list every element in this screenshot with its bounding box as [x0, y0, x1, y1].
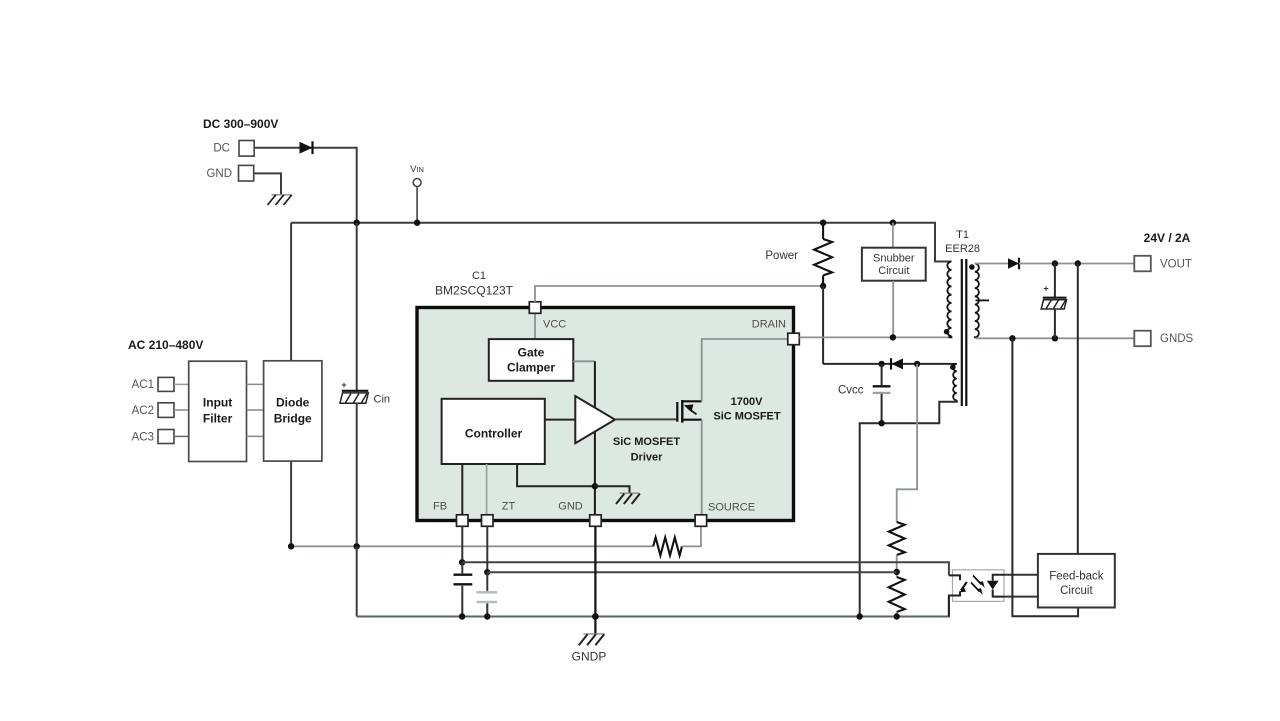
block Controller	[442, 399, 545, 464]
wire AC3 stub	[174, 435, 189, 437]
pin SOURCE	[695, 502, 755, 527]
junction dot divider/ZT	[894, 569, 900, 575]
resistor Rsense	[653, 537, 682, 555]
block Snubber Circuit	[862, 223, 926, 338]
svg-text:SOURCE: SOURCE	[708, 502, 755, 514]
svg-text:C1: C1	[472, 270, 486, 282]
svg-text:VCC: VCC	[543, 319, 566, 331]
junction dot aux return / Cvcc	[878, 420, 884, 426]
junction dot GND internal	[592, 483, 598, 489]
wire filter-bridge stubs	[247, 384, 264, 436]
pin GND	[558, 501, 601, 527]
diode D_aux (pointing left)	[891, 358, 903, 369]
svg-text:DRAIN: DRAIN	[752, 319, 786, 331]
wire controller ZT stub	[486, 464, 488, 515]
node VIN	[410, 164, 424, 187]
terminal GNDS	[1134, 331, 1193, 347]
wire top rail	[291, 223, 948, 262]
wire GND pin to GNDP	[594, 526, 596, 633]
secondary top rail	[975, 263, 1008, 265]
wire VOUT sense down	[1077, 264, 1079, 554]
svg-text:AC2: AC2	[132, 405, 154, 417]
wire FB rail to opto	[462, 562, 949, 575]
svg-text:24V / 2A: 24V / 2A	[1144, 231, 1191, 245]
wire AC2 stub	[174, 409, 189, 411]
terminal AC2	[132, 403, 174, 418]
junction dot FB	[459, 559, 465, 565]
wire controller FB stub	[461, 464, 463, 515]
junction dot bottom rail / divider	[894, 613, 900, 619]
primary winding	[948, 261, 951, 263]
pin ZT	[482, 501, 516, 527]
resistor divider lower	[889, 577, 905, 612]
junction dots on top rail	[354, 220, 360, 226]
block Feed-back Circuit	[1038, 554, 1115, 608]
junction dot bridge/sense	[288, 543, 294, 549]
svg-text:GND: GND	[206, 168, 232, 180]
terminal AC1	[132, 377, 174, 391]
wire opto to feedback (top)	[1004, 574, 1038, 576]
wire sense rail	[291, 545, 653, 547]
ground chassis (DC input)	[268, 195, 292, 205]
wire ZT rail to divider	[487, 571, 896, 573]
svg-text:SiC MOSFET: SiC MOSFET	[613, 436, 681, 448]
optocoupler U2	[949, 570, 1004, 617]
junction dot bottom rail / aux return	[857, 613, 863, 619]
junction dot FB cap bottom	[459, 613, 465, 619]
svg-text:Cvcc: Cvcc	[838, 385, 864, 397]
svg-text:Cin: Cin	[374, 394, 391, 406]
capacitor C_ZT (gray)	[476, 572, 497, 616]
diode D_in	[300, 141, 313, 154]
junction dot aux sense	[914, 361, 920, 367]
wire driver vertical rail	[594, 361, 596, 515]
block Gate Clamper	[489, 339, 574, 381]
svg-text:BM2SCQ123T: BM2SCQ123T	[435, 283, 514, 297]
aux winding	[953, 364, 957, 400]
svg-text:Power: Power	[765, 250, 798, 262]
svg-text:SiC MOSFET: SiC MOSFET	[713, 411, 781, 423]
capacitor Cin	[340, 223, 390, 547]
resistor divider upper	[889, 522, 905, 555]
secondary winding	[975, 264, 979, 339]
capacitor C_FB	[454, 562, 473, 616]
svg-text:Input: Input	[203, 396, 232, 410]
core	[961, 259, 963, 406]
wire power node down to aux rail	[822, 286, 824, 364]
pin DRAIN	[752, 319, 800, 345]
junction dot Cin/sense	[354, 543, 360, 549]
wire DRAIN to primary	[799, 336, 948, 338]
secondary tap stub	[976, 299, 990, 301]
terminal DC	[213, 141, 254, 157]
svg-text:Gate: Gate	[518, 346, 545, 360]
svg-text:Diode: Diode	[276, 396, 310, 410]
svg-text:Bridge: Bridge	[274, 412, 312, 426]
junction dot ZT cap bottom	[484, 613, 490, 619]
op-amp driver triangle	[575, 396, 615, 443]
capacitor C_out	[1041, 264, 1066, 339]
svg-text:1700V: 1700V	[731, 396, 763, 408]
svg-text:FB: FB	[433, 501, 447, 513]
wire VIN stub	[416, 187, 418, 223]
wire to VOUT	[1019, 263, 1134, 265]
wire FB node	[461, 526, 463, 562]
block Input Filter	[189, 361, 247, 461]
svg-text:Feed-back: Feed-back	[1049, 571, 1104, 583]
svg-text:+: +	[341, 380, 346, 390]
svg-text:GND: GND	[558, 501, 583, 513]
ground GNDP	[572, 634, 607, 664]
terminal AC3	[132, 430, 174, 444]
junction dot GND/bottom rail	[592, 613, 599, 620]
svg-text:AC3: AC3	[132, 432, 154, 444]
junction dot gnds sense	[1009, 335, 1015, 341]
svg-text:Clamper: Clamper	[507, 361, 555, 375]
wire divider middle	[896, 555, 898, 577]
resistor Power (startup)	[765, 223, 832, 286]
wire opto to feedback (bottom)	[1004, 596, 1038, 598]
svg-text:AC1: AC1	[132, 379, 154, 391]
wire GNDS sense down	[1012, 338, 1078, 616]
wire aux rail	[823, 363, 952, 365]
svg-text:Circuit: Circuit	[878, 265, 909, 277]
terminal VOUT	[1134, 256, 1192, 271]
svg-text:ZT: ZT	[502, 501, 516, 513]
wire divider bottom	[896, 612, 898, 617]
secondary bottom rail	[976, 337, 1135, 339]
svg-text:T1: T1	[956, 229, 969, 241]
diode D_out	[1008, 258, 1019, 270]
junction dot Cvcc top	[878, 361, 884, 367]
wire Cin down to bottom rail	[356, 546, 358, 616]
junction dot snubber/drain	[890, 334, 896, 340]
transformer T1 EER28	[944, 229, 989, 406]
capacitor Cvcc	[838, 364, 891, 423]
wire driver to gate	[615, 418, 677, 420]
svg-text:Controller: Controller	[465, 427, 523, 441]
junction dot ZT	[484, 569, 490, 575]
svg-text:Circuit: Circuit	[1060, 585, 1093, 597]
pin FB	[433, 501, 468, 527]
wire aux bottom return	[860, 400, 957, 616]
wire ZT node	[486, 526, 488, 572]
wire DC input to top rail	[255, 148, 357, 223]
wire controller to driver	[545, 419, 576, 421]
svg-text:VOUT: VOUT	[1160, 259, 1192, 271]
svg-text:EER28: EER28	[945, 243, 980, 255]
svg-text:AC 210–480V: AC 210–480V	[128, 338, 203, 352]
transistor Q1 SiC MOSFET	[677, 400, 701, 423]
IC U1 BM2SCQ123T body	[417, 270, 794, 521]
wire bridge top	[290, 223, 292, 361]
wire drain routing	[702, 339, 788, 401]
svg-text:DC: DC	[213, 143, 230, 155]
svg-text:DC 300–900V: DC 300–900V	[203, 117, 278, 131]
svg-text:VIN: VIN	[410, 164, 424, 175]
junction dot out cap bottom	[1052, 335, 1058, 341]
svg-text:Driver: Driver	[631, 452, 664, 464]
pin VCC	[529, 302, 566, 331]
svg-text:GNDS: GNDS	[1160, 333, 1194, 345]
wire VCC internal	[534, 314, 536, 340]
block Diode Bridge	[264, 361, 322, 461]
junction dot vout sense	[1075, 260, 1081, 266]
wire sense to SOURCE pin	[682, 526, 701, 546]
wire controller GND stub	[517, 464, 595, 486]
svg-text:Snubber: Snubber	[873, 253, 915, 265]
wire bottom rail	[357, 597, 949, 617]
wire source routing	[701, 420, 703, 515]
wire GND input	[254, 173, 281, 194]
wire VCC to Power resistor	[535, 286, 823, 302]
wire aux sense divider	[897, 364, 917, 522]
svg-text:GNDP: GNDP	[572, 650, 607, 664]
ground (IC internal)	[595, 486, 640, 504]
svg-text:+: +	[1043, 284, 1048, 294]
wire gate clamper to driver rail	[573, 360, 595, 362]
junction dot power/vcc	[820, 283, 826, 289]
svg-text:Filter: Filter	[203, 412, 233, 426]
wire bridge bottom	[290, 461, 292, 546]
wire AC1 stub	[174, 383, 189, 385]
junction dot out cap top	[1052, 260, 1058, 266]
terminal GND (input)	[206, 165, 253, 181]
